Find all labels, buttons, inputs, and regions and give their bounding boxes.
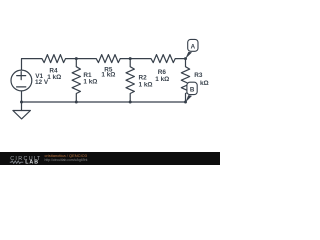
svg-text:1 kΩ: 1 kΩ (155, 76, 169, 83)
svg-text:1 kΩ: 1 kΩ (47, 74, 61, 81)
svg-text:R2: R2 (139, 74, 148, 81)
svg-text:R3: R3 (194, 72, 203, 79)
svg-text:http://circuitlab.com/c/kg69rk: http://circuitlab.com/c/kg69rk (45, 158, 88, 162)
svg-text:1 kΩ: 1 kΩ (139, 82, 153, 89)
svg-text:A: A (191, 43, 196, 50)
svg-text:1 kΩ: 1 kΩ (101, 71, 115, 78)
svg-text:LAB: LAB (25, 160, 39, 165)
svg-text:B: B (190, 87, 195, 94)
svg-text:kΩ: kΩ (200, 80, 209, 87)
svg-text:R6: R6 (158, 69, 167, 76)
svg-text:1 kΩ: 1 kΩ (83, 79, 97, 86)
